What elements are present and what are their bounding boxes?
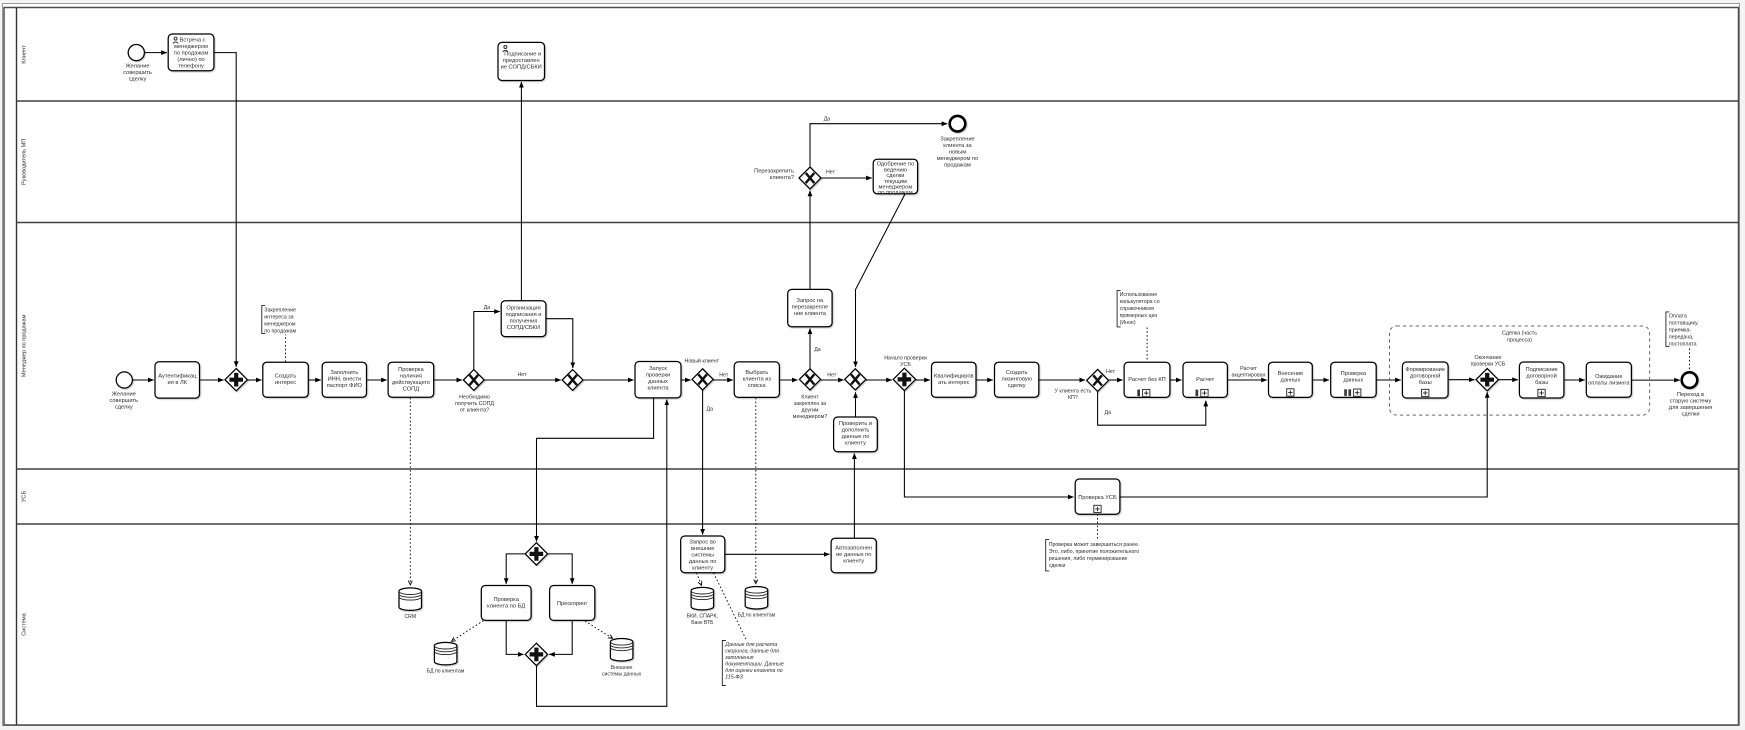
start event Желание совершить сделку (менеджер) [109,372,138,410]
svg-text:данных по: данных по [689,559,717,565]
wire Создать интерес to Заполнить ИНН [308,379,321,381]
svg-text:сделку: сделку [129,76,147,82]
svg-text:КП?: КП? [1068,395,1078,401]
task Заполнить ИНН внести паспорт ФИО [322,362,366,397]
svg-text:Создать: Создать [275,374,297,380]
svg-text:Внешние: Внешние [611,665,633,671]
wire Прескоринг to G5 [549,620,572,654]
svg-text:(лично) по: (лично) по [177,57,204,63]
svg-text:Организация: Организация [506,306,540,312]
svg-text:паспорт ФИО: паспорт ФИО [327,383,363,389]
svg-text:Автозаполнен: Автозаполнен [835,545,872,551]
svg-text:подписания и: подписания и [506,312,542,318]
svg-text:менеджером: менеджером [264,321,296,327]
dotted Запрос во внешние to БКИ СПАРК [697,573,702,585]
task Подписание и предоставление СОПД/СБКИ [498,42,545,80]
svg-text:Проверка: Проверка [1341,371,1367,377]
svg-text:Проверить и: Проверить и [839,421,872,427]
gateway G2 parallel Начало проверки УСБ [884,356,927,391]
task Формирование договорной базы [1402,362,1448,398]
svg-text:системы данных: системы данных [602,672,642,678]
svg-text:получения: получения [510,319,538,325]
svg-text:интереса за: интереса за [264,314,293,320]
gateway X4 Клиент закреплен за другим [793,369,827,420]
svg-text:Заполнить: Заполнить [330,370,358,376]
task Проверка данных [1331,362,1377,397]
svg-text:Нет: Нет [826,170,836,176]
svg-text:Да: Да [707,407,714,413]
svg-text:Новый клиент: Новый клиент [685,358,720,365]
lane divider УСБ / Система [17,523,1739,525]
svg-text:Клиент: Клиент [22,45,28,64]
svg-text:Проверка УСБ: Проверка УСБ [1078,495,1117,501]
svg-text:совершить: совершить [123,70,152,76]
svg-text:данных: данных [1344,377,1364,383]
svg-text:Расчет без КП: Расчет без КП [1128,377,1166,383]
wire Встреча to gateway G1 [214,53,236,367]
svg-text:по продажам: по продажам [264,328,296,334]
svg-text:интерес: интерес [275,380,296,386]
wire X5 to G2 [866,379,892,381]
wire G2 down to Проверка УСБ [904,391,1073,497]
wire start1 to Встреча [145,52,167,54]
svg-text:данные по: данные по [842,434,870,440]
svg-text:скоринга, данные для: скоринга, данные для [725,649,779,655]
task Автозаполнение данных по клиенту [831,538,876,573]
svg-text:СОПД/СБКИ: СОПД/СБКИ [507,325,540,331]
svg-text:дополнить: дополнить [842,427,870,433]
wire Квалифицировать to Создать лизинговую [976,379,993,381]
svg-text:Запуск: Запуск [649,366,667,372]
svg-text:лизинговую: лизинговую [1001,377,1032,383]
start event Желание совершить сделку (клиент) [123,45,152,83]
wire Проверить и дополнить to X5 [855,392,857,417]
datastore Внешние системы данных [602,639,642,678]
svg-text:ИНН, внести: ИНН, внести [328,377,361,383]
task Организация подписания и получения СОПД/СБКИ [501,301,546,337]
svg-text:УСБ: УСБ [900,362,911,368]
svg-text:клиента?: клиента? [770,175,794,181]
svg-text:Сделка (часть: Сделка (часть [1502,330,1537,336]
wire X-lane2 Да to end event lane2 [810,124,947,167]
gateway G5 parallel (система, сходящийся) [525,643,547,665]
annotation Использование калькулятора [1117,290,1160,327]
svg-text:Расчет: Расчет [1240,366,1257,372]
svg-text:клиента за: клиента за [943,143,972,149]
svg-text:Использование: Использование [1120,292,1158,298]
svg-text:Закрепление: Закрепление [940,136,974,142]
svg-text:процесса): процесса) [1507,337,1532,343]
end event Закрепление клиента за новым менеджером [937,116,979,168]
svg-text:Создать: Создать [1006,370,1028,376]
svg-text:Аутентификац: Аутентификац [158,374,197,380]
svg-text:калькулятора со: калькулятора со [1120,299,1160,305]
svg-text:клиенту: клиенту [845,440,866,446]
svg-text:(Иное): (Иное) [1120,320,1136,326]
task Квалифицировать интерес [932,362,977,397]
task Расчет без КП [1124,362,1170,397]
wire X6 Нет to Расчет без КП [1108,379,1122,381]
svg-text:решения, либо терминирование: решения, либо терминирование [1049,556,1128,562]
dotted Проверка клиента по БД to БД по клиентам [452,621,484,642]
svg-text:продажам: продажам [944,162,971,168]
svg-text:Данные для расчета: Данные для расчета [724,642,777,648]
svg-text:Внесение: Внесение [1278,371,1304,377]
svg-text:базы: базы [1535,380,1548,386]
datastore БД по клиентам (внешний) [738,587,776,619]
svg-text:Проверка: Проверка [493,597,519,603]
gateway G4 parallel (система) [525,543,547,565]
task Проверить и дополнить данные по клиенту [834,417,878,452]
annotation Проверка может завершиться ранее [1046,540,1140,571]
svg-text:Встреча с: Встреча с [180,37,206,43]
svg-text:менеджером по: менеджером по [937,156,979,162]
svg-text:наличия: наличия [400,373,422,379]
task Запуск проверки данных клиента [635,362,681,398]
svg-text:ать интерес: ать интерес [938,380,970,386]
svg-text:Ожидание: Ожидание [1595,374,1622,380]
svg-text:Проверка: Проверка [398,367,424,373]
svg-text:данных: данных [1281,377,1301,383]
svg-text:внешние: внешние [691,546,714,552]
task Создать интерес [263,362,309,397]
svg-text:Начало проверки: Начало проверки [884,356,927,362]
svg-text:Нет: Нет [719,373,729,379]
wire X1 Нет to X2 [484,379,561,381]
datastore БД по клиентам [427,642,465,674]
svg-text:Руководитель МП: Руководитель МП [22,139,28,185]
svg-text:договорной: договорной [1526,373,1556,380]
svg-text:Прескоринг: Прескоринг [557,601,588,607]
wire Внесение данных to Проверка данных [1312,379,1329,381]
svg-text:клиенту: клиенту [843,558,864,564]
datastore CRM [399,588,422,620]
svg-text:сделку: сделку [1008,383,1026,389]
svg-text:Окончание: Окончание [1475,355,1502,361]
svg-text:Запрос на: Запрос на [797,298,825,304]
wire Запрос во внешние to Автозаполнение [725,553,830,555]
svg-text:ние клиента: ние клиента [794,311,827,317]
svg-text:постоплата: постоплата [1669,342,1697,348]
task Аутентификация в ЛК [155,362,200,398]
task Запрос на перезакрепление клиента [788,289,832,326]
lane divider Менеджер по продажам / УСБ [17,468,1739,470]
svg-text:старую систему: старую систему [1670,398,1712,404]
svg-text:Нет: Нет [517,372,527,378]
gateway G1 parallel [225,369,247,391]
svg-text:системы: системы [691,553,714,559]
gateway X6 У клиента есть КП [1055,369,1109,401]
wire Подписание договорной to Ожидание [1564,379,1585,381]
task Прескоринг [550,586,595,621]
svg-text:для оценки клиента по: для оценки клиента по [725,668,782,674]
svg-text:телефону: телефону [178,63,204,69]
svg-text:Перезакрепить: Перезакрепить [754,168,794,174]
task Расчет [1183,362,1227,397]
wire G1 to Создать интерес [248,379,262,381]
svg-text:списка: списка [748,383,767,389]
wire Запуск проверки to X3 [681,379,691,381]
task Подписание договорной базы [1519,362,1564,398]
svg-text:поставщику,: поставщику, [1669,321,1699,327]
svg-text:Необходимо: Необходимо [459,395,490,401]
lane divider Руководитель МП / Менеджер по продажам [17,222,1739,224]
wire Заполнить ИНН to Проверка СОПД [367,379,387,381]
gateway X5 [845,369,866,390]
svg-text:справочником: справочником [1120,306,1155,312]
annotation Данные для расчета скоринга [722,641,784,686]
svg-text:Подписание: Подписание [1525,367,1557,373]
svg-text:акцептирован: акцептирован [1232,373,1266,379]
svg-text:У клиента есть: У клиента есть [1055,389,1092,395]
svg-text:совершить: совершить [109,398,138,404]
wire Ожидание to end event [1631,379,1679,381]
datastore БКИ СПАРК Банк ВТБ [687,587,718,626]
svg-text:данных: данных [648,379,668,385]
svg-text:Квалифициров: Квалифициров [934,374,974,380]
dotted Проверка СОПД to CRM [409,398,411,585]
svg-text:Да: Да [484,305,491,311]
svg-text:ия в ЛК: ия в ЛК [168,380,188,386]
task Запрос во внешние системы данных [681,536,725,573]
svg-text:клиента по БД: клиента по БД [487,604,525,610]
task Встреча с менеджером по продажам [168,34,214,71]
wire Расчет to Внесение данных [1227,379,1266,381]
svg-text:Формирование: Формирование [1405,367,1445,373]
svg-text:сделку: сделку [115,404,133,410]
wire Проверка УСБ to G3 [1120,392,1487,497]
wire Формирование to G3 [1448,379,1474,381]
svg-text:CRM: CRM [404,614,416,620]
wire Запуск проверки down to G4 [537,398,654,542]
wire X6 Да to Расчет снизу [1098,391,1206,425]
wire Расчет без КП to Расчет [1170,379,1182,381]
svg-text:получить СОПД: получить СОПД [455,401,494,407]
svg-text:Да: Да [1105,410,1112,416]
dotted Запрос во внешние to annotation данные [714,573,746,639]
svg-text:перезакрепле: перезакрепле [792,305,829,311]
wire Одобрение to X5 diagonal [856,194,906,367]
task Одобрение по ведению сделки текущим менеджером [873,159,917,196]
wire Проверка СОПД to X1 [434,379,462,381]
svg-text:клиента из: клиента из [743,377,772,383]
svg-text:оплаты лизинга: оплаты лизинга [1588,381,1630,387]
task Ожидание оплаты лизинга [1586,362,1631,397]
svg-text:Подписание и: Подписание и [504,51,541,57]
wire Организация СОПД to Подписание СОПД [520,82,522,301]
svg-text:приемка-: приемка- [1669,328,1692,334]
wire G4 to Проверка клиента по БД [506,554,525,584]
svg-text:Проверка может завершиться ран: Проверка может завершиться ранее. [1049,542,1140,548]
wire X3 Да down to Запрос во внешние [702,391,704,535]
gateway X Перезакрепить клиента (рук. МП) [754,167,821,189]
svg-text:примерных цен: примерных цен [1120,313,1158,319]
svg-text:базы: базы [1419,380,1432,386]
svg-text:другим: другим [801,408,819,414]
svg-text:Нет: Нет [1106,369,1116,375]
svg-text:клиенту: клиенту [692,566,713,572]
svg-text:по продажам: по продажам [878,190,913,196]
svg-text:менеджером?: менеджером? [793,414,827,420]
dotted Выбрать клиента to БД по клиентам [755,398,757,584]
svg-text:Система: Система [22,612,28,635]
svg-text:Переход в: Переход в [1677,392,1704,398]
dotted Создать интерес to annotation [285,335,287,362]
svg-text:Это, либо, принятие положитель: Это, либо, принятие положительного [1049,549,1140,555]
svg-text:клиента: клиента [647,386,669,392]
task Проверка наличия действующего СОПД [388,362,434,397]
dotted Прескоринг to Внешние системы [585,621,613,638]
wire X4 Нет to X5 [820,379,843,381]
annotation Закрепление интереса за менеджером [262,306,297,335]
svg-text:проверки: проверки [646,373,670,379]
wire G2 to Квалифицировать [916,379,930,381]
svg-text:проверки УСБ: проверки УСБ [1471,361,1506,367]
wire G5 return to Запуск проверки [537,400,667,707]
svg-text:новым: новым [949,149,966,155]
task Выбрать клиента из списка [734,362,779,398]
wire Проверка данных to Формирование [1376,379,1401,381]
svg-text:БКИ, СПАРК,: БКИ, СПАРК, [687,614,718,620]
svg-text:заполнения: заполнения [724,655,754,661]
svg-text:Да: Да [824,116,831,122]
svg-text:ие данных по: ие данных по [836,552,871,558]
svg-text:Желание: Желание [125,63,149,69]
svg-text:сделки: сделки [1049,563,1066,569]
svg-text:договорной: договорной [1410,373,1440,380]
svg-text:для завершения: для завершения [1669,405,1712,411]
svg-text:Расчет: Расчет [1196,377,1214,383]
wire start2 to Аутентификация [133,379,154,381]
svg-text:115-ФЗ: 115-ФЗ [725,675,743,681]
wire G3 to Подписание договорной [1499,379,1518,381]
wire X-lane2 Нет to Одобрение [822,177,872,179]
task Проверка клиента по БД [481,586,531,621]
wire Организация СОПД to X2 [546,319,573,368]
svg-text:Оплата: Оплата [1669,314,1687,320]
svg-text:Клиент: Клиент [801,395,819,401]
svg-text:по продажам: по продажам [174,50,209,56]
svg-text:предоставлен: предоставлен [503,58,540,64]
svg-text:сделки: сделки [1681,411,1699,417]
svg-text:от клиента?: от клиента? [460,408,489,414]
wire Создать лизинговую to X6 [1039,379,1085,381]
gateway X2 [562,370,583,391]
svg-text:Менеджер по продажам: Менеджер по продажам [22,314,28,377]
wire Автозаполнение to Проверить и дополнить [853,453,855,538]
svg-text:Банк ВТБ: Банк ВТБ [691,620,714,626]
svg-text:БД по клиентам: БД по клиентам [427,669,465,675]
task Внесение данных [1269,362,1313,397]
task Проверка УСБ [1075,479,1120,514]
annotation Оплата поставщику приемка-передача [1666,312,1699,348]
wire Аутентификация to G1 [200,379,224,381]
svg-text:Желание: Желание [112,391,136,397]
dotted Проверка УСБ to annotation [1097,514,1099,538]
svg-text:документации. Данные: документации. Данные [725,662,784,668]
wire Выбрать клиента to X4 [779,379,797,381]
svg-text:Закрепление: Закрепление [264,307,296,313]
svg-text:закреплен за: закреплен за [794,401,826,407]
wire Проверка клиента по БД to G5 [506,620,523,654]
svg-text:СОПД: СОПД [403,386,419,392]
svg-text:БД по клиентам: БД по клиентам [738,613,776,619]
gateway X3 Новый клиент [685,358,720,390]
wire G4 to Прескоринг [548,554,573,584]
gateway G3 parallel Окончание проверки УСБ [1471,355,1506,391]
wire X2 to Запуск проверки [583,379,633,381]
svg-text:Да: Да [814,347,821,353]
task Создать лизинговую сделку [995,362,1039,397]
svg-text:передача,: передача, [1669,335,1693,341]
svg-text:Нет: Нет [827,372,837,378]
svg-text:ие СОПД/СБКИ: ие СОПД/СБКИ [501,64,542,70]
svg-text:менеджером: менеджером [174,44,208,50]
wire X4 Да up to Запрос на перезакрепление [809,329,811,369]
svg-text:действующего: действующего [392,379,430,386]
dotted аннотация калькулятора to Расчет без КП [1146,328,1148,362]
wire X1 Да to Организация СОПД [474,312,500,370]
end event Переход в старую систему [1669,372,1712,417]
lane divider Клиент / Руководитель МП [17,100,1739,102]
wire X3 Нет to Выбрать клиента [713,379,733,381]
group Сделка часть процесса [1390,326,1650,415]
dotted annotation Оплата to end event [1689,349,1691,370]
wire Запрос на перезакрепление to X-lane2 [809,191,811,290]
gateway X1 Необходимо получить СОПД [455,370,494,414]
svg-text:УСБ: УСБ [22,491,28,503]
svg-text:Выбрать: Выбрать [745,370,768,376]
svg-text:Запрос во: Запрос во [689,540,716,546]
